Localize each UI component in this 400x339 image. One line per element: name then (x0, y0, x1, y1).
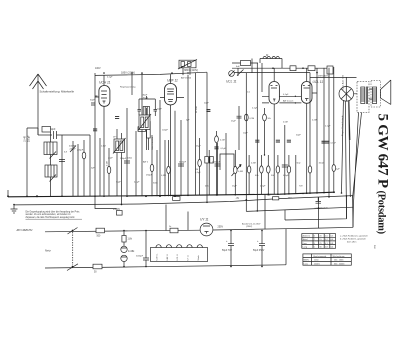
mains line B (45, 265, 286, 268)
wire transformer-speaker (369, 89, 372, 99)
osc coil box (143, 107, 149, 117)
urdox circle 1 (121, 246, 127, 252)
wire vertical 90 (89, 135, 91, 196)
resistor R5 (151, 135, 153, 196)
resistor box 2kΩ (290, 66, 296, 71)
resistor R12 (260, 155, 262, 194)
svg-text:100V: 100V (95, 67, 101, 70)
wire vertical 157 (156, 150, 158, 196)
wire E drop (319, 196, 353, 228)
svg-text:70V: 70V (299, 186, 303, 188)
svg-text:Zupassen, die tiefe Hochfreque: Zupassen, die tiefe Hochfrequenz ausgele… (26, 216, 76, 219)
resistor box right (327, 66, 333, 74)
svg-text:5: 5 (314, 247, 315, 249)
resistor box 0,1 (308, 66, 315, 71)
svg-text:255V: 255V (218, 226, 224, 229)
riser 252 (252, 59, 260, 74)
wire left coil feed (61, 135, 63, 196)
svg-text:5000pF: 5000pF (136, 256, 144, 258)
capacitor osc right (154, 105, 158, 116)
svg-text:2,5: 2,5 (325, 236, 328, 238)
supply bus B (14, 196, 353, 205)
wire node to padder (27, 128, 38, 196)
dial lamp wire (95, 196, 117, 208)
pin leads U4 (307, 68, 317, 193)
svg-text:5000pF: 5000pF (179, 162, 187, 164)
svg-text:0,6: 0,6 (331, 239, 334, 241)
junction dots top (103, 67, 318, 73)
tube U1 UCH11 (99, 86, 110, 107)
wire riser 207 (206, 72, 208, 202)
transformer core (366, 87, 367, 105)
wire vertical 239 (238, 106, 240, 150)
svg-text:UCL 11: UCL 11 (226, 80, 237, 84)
capacitor osc left (138, 105, 142, 115)
capacitor on 127 (124, 161, 130, 163)
svg-text:werden. Zu erst aufmessleiten,: werden. Zu erst aufmessleiten, einzuleit… (26, 213, 71, 216)
pin leads U1 (95, 75, 104, 196)
wire vertical 310 (309, 73, 311, 194)
svg-text:185V (210V): 185V (210V) (121, 71, 135, 74)
svg-text:Netz: Netz (45, 248, 51, 252)
box between buses a (173, 197, 180, 201)
resistor R9 (199, 138, 201, 195)
svg-text:50pF: 50pF (296, 135, 301, 137)
anode bus 185V (95, 72, 207, 75)
switch top (237, 70, 244, 76)
svg-text:AW 15000: AW 15000 (181, 77, 192, 80)
svg-text:Regelspannung: Regelspannung (120, 87, 136, 89)
svg-text:25µF: 25µF (232, 186, 238, 188)
capacitor 20pF dark (206, 110, 210, 112)
feed 166 (165, 205, 167, 231)
svg-text:0,2M: 0,2M (312, 120, 317, 122)
wire top riser 95 (94, 73, 96, 196)
resistor oval 246 (244, 114, 248, 121)
svg-text:UCH 11: UCH 11 (157, 253, 159, 261)
wire antenna to input (38, 134, 52, 136)
svg-text:+9V: +9V (267, 195, 271, 197)
box between buses b (273, 197, 279, 200)
capacitor on 284 (282, 125, 288, 194)
svg-text:UCH 11: UCH 11 (99, 80, 111, 84)
svg-text:4nF: 4nF (236, 66, 240, 68)
IF transformer F3 (179, 60, 196, 68)
output transformer dashed (357, 82, 369, 113)
heater chain box (151, 248, 208, 262)
tube U4 UCL11 (301, 82, 312, 104)
wire vertical 226 (225, 133, 227, 195)
svg-text:30pF: 30pF (90, 100, 95, 102)
svg-text:UCL 11: UCL 11 (177, 253, 179, 260)
svg-text:UCL 11: UCL 11 (313, 80, 324, 84)
capacitor dark 216 (214, 147, 218, 149)
svg-text:100pF: 100pF (162, 130, 169, 132)
svg-text:0,1µF: 0,1µF (283, 94, 289, 96)
wire vertical 73 (72, 141, 74, 196)
IF transformer F1 (114, 139, 125, 153)
dropper lead (123, 262, 125, 267)
capacitor dark 289 (287, 140, 291, 142)
svg-text:0,1µF: 0,1µF (260, 186, 266, 188)
svg-text:50µF: 50µF (116, 182, 122, 184)
svg-text:0,4: 0,4 (331, 247, 334, 249)
closing vertical right (285, 229, 287, 265)
svg-text:0,5: 0,5 (331, 236, 334, 238)
svg-text:30pF: 30pF (143, 95, 148, 97)
svg-text:-39V: -39V (287, 197, 292, 199)
svg-text:50µF 70V: 50µF 70V (222, 250, 232, 252)
junction dots mains (72, 230, 263, 268)
chassis bus A (8, 192, 334, 197)
svg-text:0,1µF: 0,1µF (134, 182, 140, 184)
svg-text:600 - 2000m: 600 - 2000m (334, 263, 345, 265)
svg-text:ZF=468kHz: ZF=468kHz (16, 228, 34, 232)
wire vertical 78 (77, 144, 79, 196)
svg-text:1200m: 1200m (314, 263, 320, 265)
wire top d (229, 72, 310, 74)
wire vertical 175 (174, 111, 176, 196)
svg-text:50kΩ: 50kΩ (127, 158, 132, 160)
wire vertical 139 osc (139, 96, 155, 150)
svg-text:Dr: Dr (266, 54, 269, 57)
svg-text:0,8: 0,8 (331, 243, 334, 245)
capacitor on 62 (59, 160, 65, 162)
note underline (26, 218, 83, 220)
capacitor dark 278 (276, 140, 280, 142)
svg-text:(230V): (230V) (246, 226, 253, 228)
oscillator coil (131, 73, 133, 95)
resistor R7 (168, 140, 170, 196)
resistor oval 216 (216, 131, 218, 195)
resistor R17 (288, 155, 290, 194)
NF line to output (310, 76, 357, 78)
svg-text:0,3M: 0,3M (161, 175, 166, 177)
wire switch links (50, 132, 52, 196)
tube U6 UY11 (200, 223, 213, 236)
pin leads U5 (342, 77, 358, 193)
svg-text:4×28k: 4×28k (128, 250, 135, 253)
svg-text:Lw.: Lw. (373, 245, 377, 249)
svg-text:20pF: 20pF (204, 103, 209, 105)
capacitor on 181 (178, 120, 184, 196)
svg-text:380V (410V): 380V (410V) (184, 69, 198, 72)
svg-text:6: 6 (314, 236, 315, 238)
resistor R6 (164, 140, 166, 196)
svg-text:7: 7 (314, 239, 315, 241)
svg-text:0,5M: 0,5M (283, 122, 288, 124)
grid cap node (95, 95, 98, 97)
svg-text:10pF: 10pF (243, 133, 248, 135)
pin leads U3 (262, 68, 274, 194)
urdox circle 2 (121, 255, 127, 261)
capacitor 239 (237, 116, 242, 118)
wire vertical 136 (135, 131, 137, 196)
capacitor grid (91, 103, 95, 105)
svg-text:200 - 160m: 200 - 160m (334, 260, 344, 262)
ground left (11, 205, 18, 214)
svg-text:9: 9 (314, 243, 315, 245)
resistor R14 (308, 166, 312, 173)
pin leads F3 (183, 68, 196, 196)
coil L2 (45, 165, 57, 177)
svg-text:UY 11: UY 11 (188, 254, 190, 260)
capacitor dark 257 (255, 140, 259, 142)
tube links U3-U4 (279, 96, 301, 103)
resistor entstör (170, 228, 178, 233)
table 2 (303, 254, 351, 266)
svg-text:1M: 1M (195, 169, 198, 171)
svg-text:60pF: 60pF (50, 128, 56, 131)
svg-text:125m: 125m (314, 260, 319, 262)
wire vertical 160 (159, 100, 161, 196)
elko C21 (259, 231, 265, 267)
riser 317 (316, 68, 318, 193)
svg-text:AW 2: AW 2 (143, 161, 149, 164)
svg-text:250pF: 250pF (146, 175, 153, 177)
svg-text:Anode UCL11 240V: Anode UCL11 240V (242, 223, 261, 226)
resistor R15 (267, 155, 269, 194)
tube U2 UBF11 (165, 84, 177, 105)
svg-text:b = Maß Farbteil 1, gewickelt: b = Maß Farbteil 1, gewickelt (340, 237, 366, 240)
junction dots bus B (13, 195, 347, 205)
svg-text:3,2: 3,2 (325, 239, 328, 241)
svg-text:-3V: -3V (236, 198, 240, 200)
bus C segment (246, 207, 353, 211)
svg-text:0,5M: 0,5M (238, 171, 243, 173)
capacitor 0,1µF/250V (316, 197, 322, 203)
svg-text:0,1µF: 0,1µF (107, 77, 113, 79)
svg-text:0,1µF: 0,1µF (331, 143, 337, 145)
trimmer circle (229, 71, 235, 77)
wire vertical 295 (295, 155, 297, 194)
speaker coil (372, 87, 376, 104)
resistor R3 (108, 148, 110, 196)
switch mains pole 1 (68, 228, 78, 235)
table 1 (302, 234, 336, 249)
svg-text:ZF I: ZF I (113, 137, 117, 139)
switch S1b (50, 175, 57, 182)
svg-text:UBF 11: UBF 11 (167, 78, 178, 82)
capacitor dark 95 (93, 129, 97, 131)
svg-text:+150V: +150V (113, 208, 120, 211)
rails from transformer (345, 101, 361, 227)
junction dots mid (216, 96, 343, 212)
padder box (138, 127, 146, 132)
feed 188 (187, 212, 189, 231)
svg-text:20pF: 20pF (157, 109, 162, 111)
svg-text:a = Maß Farbband u. gewickelt: a = Maß Farbband u. gewickelt (340, 234, 368, 237)
svg-text:AW 2,5-0,5: AW 2,5-0,5 (283, 99, 294, 102)
capacitor dark 117 (115, 117, 119, 119)
mains line A (45, 227, 353, 232)
svg-text:Lang: Lang (304, 263, 308, 265)
svg-text:ZF 468: ZF 468 (196, 106, 198, 113)
wire stub left bus (7, 190, 9, 196)
svg-text:25µF: 25µF (231, 121, 237, 123)
trimmer arrow (70, 146, 76, 153)
stub 265 (264, 194, 266, 229)
resistor R11 (248, 155, 250, 195)
wire vertical 127 (126, 108, 128, 196)
svg-text:0,5M: 0,5M (250, 118, 255, 120)
svg-text:100pF: 100pF (120, 158, 127, 160)
svg-text:0,1µF: 0,1µF (252, 108, 258, 110)
svg-text:290V(305V): 290V(305V) (318, 75, 330, 77)
box pair low (205, 157, 209, 164)
svg-text:50µF 350V: 50µF 350V (253, 250, 265, 252)
wire D loop (285, 196, 347, 220)
svg-text:0,1µF: 0,1µF (325, 126, 331, 128)
svg-text:0,1M: 0,1M (106, 161, 108, 166)
wire vertical 100 (99, 138, 101, 196)
riser 329 (328, 68, 330, 197)
wire top b (232, 62, 258, 64)
svg-text:Gleichstromwid.: Gleichstromwid. (313, 255, 327, 258)
riser 238 (237, 68, 239, 76)
riser 262 (261, 63, 263, 92)
resistor block top (42, 127, 51, 133)
svg-text:0,3M: 0,3M (251, 163, 256, 165)
tube U3 UCL11 (269, 82, 279, 105)
riser 333 (333, 67, 335, 192)
riser 324 (323, 68, 325, 193)
dial lamp box (117, 211, 123, 216)
resistor 50Ω (93, 264, 102, 269)
svg-text:UY 11: UY 11 (200, 218, 209, 222)
IF transformer F2 (139, 115, 150, 130)
wire vertical 84 (83, 140, 85, 196)
potentiometer 0,5MΩ (232, 150, 242, 195)
svg-text:0,1M: 0,1M (220, 140, 225, 142)
svg-text:Schalterstellung: Mittelwelle: Schalterstellung: Mittelwelle (40, 90, 75, 94)
svg-text:25µF: 25µF (196, 146, 202, 148)
capacitor on 217 (215, 143, 221, 195)
svg-text:10-48: 10-48 (25, 135, 27, 142)
svg-text:Mittel: Mittel (303, 238, 308, 241)
pin leads U2 (160, 74, 184, 196)
wire (57, 134, 91, 136)
svg-text:25: 25 (319, 243, 321, 245)
junction dots bus A (7, 192, 325, 197)
svg-text:0,1µF: 0,1µF (195, 172, 201, 174)
speaker dashed frame (371, 81, 381, 108)
sprinkle labels (64, 77, 340, 188)
resistor 500Ω (96, 228, 105, 233)
svg-text:15: 15 (319, 239, 321, 241)
svg-text:20: 20 (319, 236, 321, 238)
speaker cone (381, 80, 391, 105)
svg-text:Dr: Dr (169, 225, 172, 228)
svg-text:= 0,1µF/250V: = 0,1µF/250V (315, 208, 329, 210)
svg-text:Antenne: Antenne (303, 235, 311, 238)
svg-text:200pF: 200pF (29, 135, 31, 142)
output tube U5 (339, 87, 354, 102)
pin leads F1 (117, 129, 122, 204)
svg-text:Kurz: Kurz (303, 243, 307, 245)
switch S1a (50, 152, 57, 159)
wire vertical 209 (208, 150, 210, 195)
wire top c (232, 67, 333, 69)
antenna (30, 74, 47, 135)
pin leads F2 (142, 73, 147, 196)
svg-text:Neue Ausf. 600: Neue Ausf. 600 (342, 74, 345, 90)
capacitor mains (143, 231, 149, 267)
svg-text:Lang: Lang (303, 247, 307, 249)
svg-text:0,1M: 0,1M (101, 146, 106, 148)
wire vertical 257 (256, 63, 258, 211)
switch link dashed (72, 232, 74, 265)
riser 282 (281, 59, 283, 69)
dropper resistor 1,8kΩ (123, 231, 125, 247)
svg-text:15kΩ: 15kΩ (319, 163, 324, 165)
svg-text:Wechselstrom: Wechselstrom (333, 255, 345, 258)
elko C20 (228, 231, 234, 267)
svg-text:80kHz: 80kHz (304, 260, 309, 262)
svg-text:2,8: 2,8 (325, 247, 328, 249)
wire vertical 246 (245, 73, 247, 212)
svg-text:0,1µF: 0,1µF (221, 148, 227, 150)
resistor box top (241, 61, 251, 66)
resistor R16 (277, 155, 279, 194)
svg-text:Die Gegenkopplung wird über di: Die Gegenkopplung wird über die Anzapfun… (26, 211, 81, 214)
open frame pot (220, 154, 234, 170)
svg-text:Regen. Freischwingk.: Regen. Freischwingk. (341, 115, 344, 136)
svg-text:30: 30 (319, 247, 321, 249)
svg-text:20pF: 20pF (108, 158, 113, 160)
svg-text:beim offen: beim offen (347, 241, 356, 243)
switch mains pole 2 (67, 264, 78, 271)
capacitor C1 (54, 131, 57, 139)
coil bumps a (263, 57, 279, 59)
svg-text:4,1: 4,1 (325, 243, 328, 245)
tall trimmer box (147, 122, 151, 139)
svg-text:10000pF: 10000pF (212, 162, 221, 164)
svg-text:5kΩ: 5kΩ (297, 163, 301, 165)
top wire a (260, 58, 282, 60)
svg-text:Skala: Skala (198, 255, 200, 261)
svg-text:0,1µF: 0,1µF (283, 175, 289, 177)
svg-text:UBF 11: UBF 11 (167, 253, 169, 261)
coil L1 (44, 142, 57, 155)
resistor oval 264 (264, 108, 266, 155)
